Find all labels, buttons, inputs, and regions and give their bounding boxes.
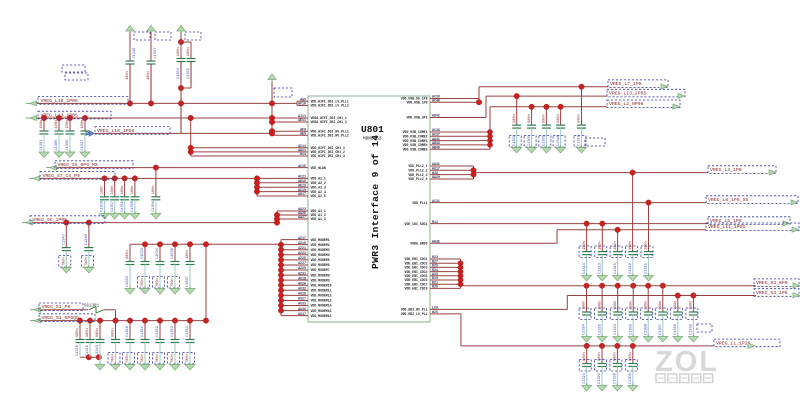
svg-text:C1322: C1322 bbox=[598, 373, 602, 384]
svg-text:C1305: C1305 bbox=[55, 140, 59, 151]
svg-text:C1309: C1309 bbox=[629, 324, 633, 335]
svg-text:700n: 700n bbox=[85, 257, 89, 266]
svg-text:C1306: C1306 bbox=[629, 373, 633, 384]
svg-text:VDD_MODEM14: VDD_MODEM14 bbox=[311, 304, 332, 308]
svg-text:VREG_S5_0P6_MX: VREG_S5_0P6_MX bbox=[58, 162, 98, 168]
svg-text:700n: 700n bbox=[186, 354, 190, 363]
svg-text:100n: 100n bbox=[126, 71, 130, 80]
svg-text:C1353: C1353 bbox=[171, 326, 175, 337]
svg-text:VDD_MODEM8: VDD_MODEM8 bbox=[311, 273, 330, 277]
svg-text:VREG_L10_1P58: VREG_L10_1P58 bbox=[97, 128, 135, 134]
svg-text:C1390: C1390 bbox=[557, 135, 561, 146]
svg-text:PWR3 Interface 9 of 14: PWR3 Interface 9 of 14 bbox=[370, 135, 381, 269]
svg-text:VDDA_WIFI_DSI_CH1_2: VDDA_WIFI_DSI_CH1_2 bbox=[311, 120, 347, 124]
svg-text:900n: 900n bbox=[528, 114, 532, 123]
svg-text:C1343: C1343 bbox=[96, 345, 100, 356]
svg-text:100n: 100n bbox=[186, 250, 190, 259]
svg-text:C1306: C1306 bbox=[66, 140, 70, 151]
svg-text:700n: 700n bbox=[156, 278, 160, 287]
svg-text:C1312: C1312 bbox=[629, 263, 633, 274]
svg-text:VDD_MODEM16: VDD_MODEM16 bbox=[311, 314, 332, 318]
svg-text:C1308: C1308 bbox=[644, 324, 648, 335]
svg-text:980n: 980n bbox=[76, 328, 80, 337]
svg-text:C1533: C1533 bbox=[141, 248, 145, 259]
svg-text:VDD_EBI_HV_PLL: VDD_EBI_HV_PLL bbox=[401, 308, 428, 312]
svg-text:C1347: C1347 bbox=[63, 234, 67, 245]
svg-text:C1321: C1321 bbox=[583, 372, 587, 384]
svg-text:VDD_MODEM1: VDD_MODEM1 bbox=[311, 238, 330, 242]
svg-text:VREG_L8_1P8_S5: VREG_L8_1P8_S5 bbox=[708, 197, 748, 203]
svg-text:980n: 980n bbox=[112, 328, 116, 337]
svg-text:C1328: C1328 bbox=[76, 345, 80, 356]
svg-text:VREG_L13_1P05: VREG_L13_1P05 bbox=[41, 112, 79, 118]
svg-text:C1314: C1314 bbox=[583, 263, 587, 274]
svg-text:C1302: C1302 bbox=[513, 135, 517, 146]
svg-text:980n: 980n bbox=[86, 328, 90, 337]
svg-text:C1323: C1323 bbox=[614, 324, 618, 335]
svg-text:C1354: C1354 bbox=[177, 68, 181, 79]
svg-text:C1330: C1330 bbox=[614, 373, 618, 384]
svg-text:C1354: C1354 bbox=[186, 326, 190, 337]
svg-text:VDD_PLL2_3: VDD_PLL2_3 bbox=[408, 173, 427, 177]
svg-text:C1313: C1313 bbox=[599, 263, 603, 274]
svg-text:100n: 100n bbox=[121, 186, 125, 195]
svg-text:C1311: C1311 bbox=[645, 262, 649, 274]
svg-text:VDD_CDC_SDC1: VDD_CDC_SDC1 bbox=[405, 222, 428, 226]
svg-text:700n: 700n bbox=[126, 354, 130, 363]
svg-text:VDD_WLAN: VDD_WLAN bbox=[311, 166, 326, 170]
svg-text:C1534: C1534 bbox=[156, 248, 160, 259]
svg-text:VREG_L1_1P2S: VREG_L1_1P2S bbox=[716, 340, 751, 346]
svg-text:100n: 100n bbox=[40, 120, 44, 129]
svg-text:VDD_MODEM4: VDD_MODEM4 bbox=[311, 253, 330, 257]
svg-text:U801: U801 bbox=[361, 124, 384, 135]
svg-text:VDD_A2_1: VDD_A2_1 bbox=[311, 177, 326, 181]
svg-text:VREG_L7_1P8: VREG_L7_1P8 bbox=[610, 81, 642, 87]
svg-text:100n: 100n bbox=[55, 120, 59, 129]
svg-text:700n: 700n bbox=[141, 354, 145, 363]
svg-text:VDD_PLL1: VDD_PLL1 bbox=[412, 201, 427, 205]
svg-text:C1329: C1329 bbox=[86, 345, 90, 356]
svg-text:100n: 100n bbox=[101, 186, 105, 195]
svg-text:VDD_WIFI_DSI_HV_PLL2: VDD_WIFI_DSI_HV_PLL2 bbox=[311, 134, 349, 138]
svg-text:VDD_MODEM7: VDD_MODEM7 bbox=[311, 268, 330, 272]
svg-text:VDD_MODEM2: VDD_MODEM2 bbox=[311, 243, 330, 247]
svg-text:100n: 100n bbox=[131, 186, 135, 195]
svg-text:VDD_MODEM5: VDD_MODEM5 bbox=[311, 258, 330, 262]
svg-text:VDD_EBI_CDC8: VDD_EBI_CDC8 bbox=[405, 287, 428, 291]
svg-text:VDD_MODEM15: VDD_MODEM15 bbox=[311, 309, 332, 313]
svg-text:VDD_MODEM12: VDD_MODEM12 bbox=[311, 294, 332, 298]
svg-text:VDD_MODEM9: VDD_MODEM9 bbox=[311, 278, 330, 282]
svg-text:700n: 700n bbox=[171, 278, 175, 287]
svg-text:VDD_MODEM11: VDD_MODEM11 bbox=[311, 289, 332, 293]
svg-text:VDD_MODEM13: VDD_MODEM13 bbox=[311, 299, 332, 303]
svg-text:900n: 900n bbox=[187, 47, 191, 56]
svg-text:C1325: C1325 bbox=[598, 324, 602, 335]
svg-text:VDD_WIFI_DSI_CH1_3: VDD_WIFI_DSI_CH1_3 bbox=[311, 154, 346, 158]
svg-text:VDD_A2_3: VDD_A2_3 bbox=[311, 185, 326, 189]
svg-text:C1255: C1255 bbox=[690, 324, 694, 335]
svg-text:700n: 700n bbox=[156, 354, 160, 363]
svg-text:VDD_USB_CORE5: VDD_USB_CORE5 bbox=[403, 147, 428, 151]
svg-text:100n: 100n bbox=[66, 120, 70, 129]
svg-text:C1324: C1324 bbox=[583, 324, 587, 335]
svg-text:C1303: C1303 bbox=[528, 135, 532, 146]
svg-text:C1837: C1837 bbox=[186, 276, 190, 287]
svg-text:C1359: C1359 bbox=[121, 201, 125, 212]
svg-text:VREG_S4_1P8: VREG_S4_1P8 bbox=[756, 290, 788, 296]
svg-text:VDD_MODEM3: VDD_MODEM3 bbox=[311, 248, 330, 252]
svg-text:VDD_PLL2_4: VDD_PLL2_4 bbox=[408, 177, 427, 181]
svg-text:980n: 980n bbox=[96, 328, 100, 337]
svg-text:VREG_L11_1P8S: VREG_L11_1P8S bbox=[708, 224, 746, 230]
svg-text:C1307: C1307 bbox=[659, 324, 663, 335]
svg-text:C1351: C1351 bbox=[141, 325, 145, 337]
svg-text:C1348: C1348 bbox=[85, 234, 89, 245]
svg-text:VREG_L2_0P98: VREG_L2_0P98 bbox=[609, 101, 644, 107]
svg-text:ZOL: ZOL bbox=[655, 346, 719, 378]
svg-text:VDD_A2_2: VDD_A2_2 bbox=[311, 181, 326, 185]
svg-text:C1310: C1310 bbox=[578, 135, 582, 146]
svg-text:VREG_SC_1P05: VREG_SC_1P05 bbox=[33, 217, 68, 223]
svg-text:VREG_S1_P8: VREG_S1_P8 bbox=[42, 304, 71, 310]
svg-text:C1356: C1356 bbox=[101, 201, 105, 212]
svg-text:100n: 100n bbox=[147, 71, 151, 80]
svg-text:VREG_S3_0P9: VREG_S3_0P9 bbox=[756, 280, 788, 286]
svg-text:VDD_A2_5: VDD_A2_5 bbox=[311, 194, 326, 198]
svg-text:C1355: C1355 bbox=[187, 68, 191, 79]
svg-text:900n: 900n bbox=[177, 47, 181, 56]
svg-text:VDDA_GNSS: VDDA_GNSS bbox=[410, 241, 427, 245]
svg-text:VREG_L3_1P0: VREG_L3_1P0 bbox=[710, 167, 742, 173]
svg-text:VDD_WIFI_DSI_LV_PLL2: VDD_WIFI_DSI_LV_PLL2 bbox=[311, 104, 349, 108]
svg-text:900n: 900n bbox=[513, 114, 517, 123]
svg-text:700n: 700n bbox=[141, 278, 145, 287]
svg-text:C1530: C1530 bbox=[171, 248, 175, 259]
svg-text:C1320: C1320 bbox=[674, 324, 678, 335]
svg-text:VDD_USB_3P1: VDD_USB_3P1 bbox=[406, 116, 427, 120]
svg-text:700n: 700n bbox=[171, 354, 175, 363]
svg-text:100n: 100n bbox=[111, 186, 115, 195]
svg-text:900n: 900n bbox=[126, 250, 130, 259]
svg-text:900n: 900n bbox=[543, 114, 547, 123]
svg-text:C1361: C1361 bbox=[543, 134, 547, 146]
svg-text:C1317: C1317 bbox=[154, 48, 158, 59]
svg-text:C1357: C1357 bbox=[111, 201, 115, 212]
svg-text:C1833: C1833 bbox=[126, 276, 130, 287]
svg-text:C1327: C1327 bbox=[81, 140, 85, 151]
svg-text:100n: 100n bbox=[81, 120, 85, 129]
svg-text:C1304: C1304 bbox=[152, 201, 156, 212]
svg-text:VDD_MODEM6: VDD_MODEM6 bbox=[311, 263, 330, 267]
svg-text:VDD_MODEM10: VDD_MODEM10 bbox=[311, 283, 332, 287]
svg-text:VDD_A1_3: VDD_A1_3 bbox=[311, 217, 326, 221]
svg-text:700n: 700n bbox=[112, 354, 116, 363]
svg-text:VDD_A2_4: VDD_A2_4 bbox=[311, 190, 326, 194]
svg-text:C1352: C1352 bbox=[156, 326, 160, 337]
svg-text:100n: 100n bbox=[152, 186, 156, 195]
svg-text:VREG_L10_1P05: VREG_L10_1P05 bbox=[41, 98, 79, 104]
svg-text:C1360: C1360 bbox=[131, 201, 135, 212]
svg-text:C1350: C1350 bbox=[126, 326, 130, 337]
svg-text:C1303: C1303 bbox=[40, 140, 44, 151]
svg-text:900n: 900n bbox=[557, 114, 561, 123]
svg-text:900n: 900n bbox=[578, 114, 582, 123]
svg-text:C1315: C1315 bbox=[614, 263, 618, 274]
svg-text:VREG_S1_0P6Q6: VREG_S1_0P6Q6 bbox=[42, 315, 80, 321]
svg-text:VDD_EBI_LV_PLL: VDD_EBI_LV_PLL bbox=[401, 312, 428, 316]
svg-text:VREG_L13_2P95: VREG_L13_2P95 bbox=[609, 91, 647, 97]
svg-text:C1316: C1316 bbox=[133, 48, 137, 59]
svg-text:VDD_USB_1P8: VDD_USB_1P8 bbox=[406, 100, 427, 104]
svg-text:VREG_S7_CX_P9: VREG_S7_CX_P9 bbox=[43, 173, 81, 179]
svg-text:700n: 700n bbox=[63, 257, 67, 266]
